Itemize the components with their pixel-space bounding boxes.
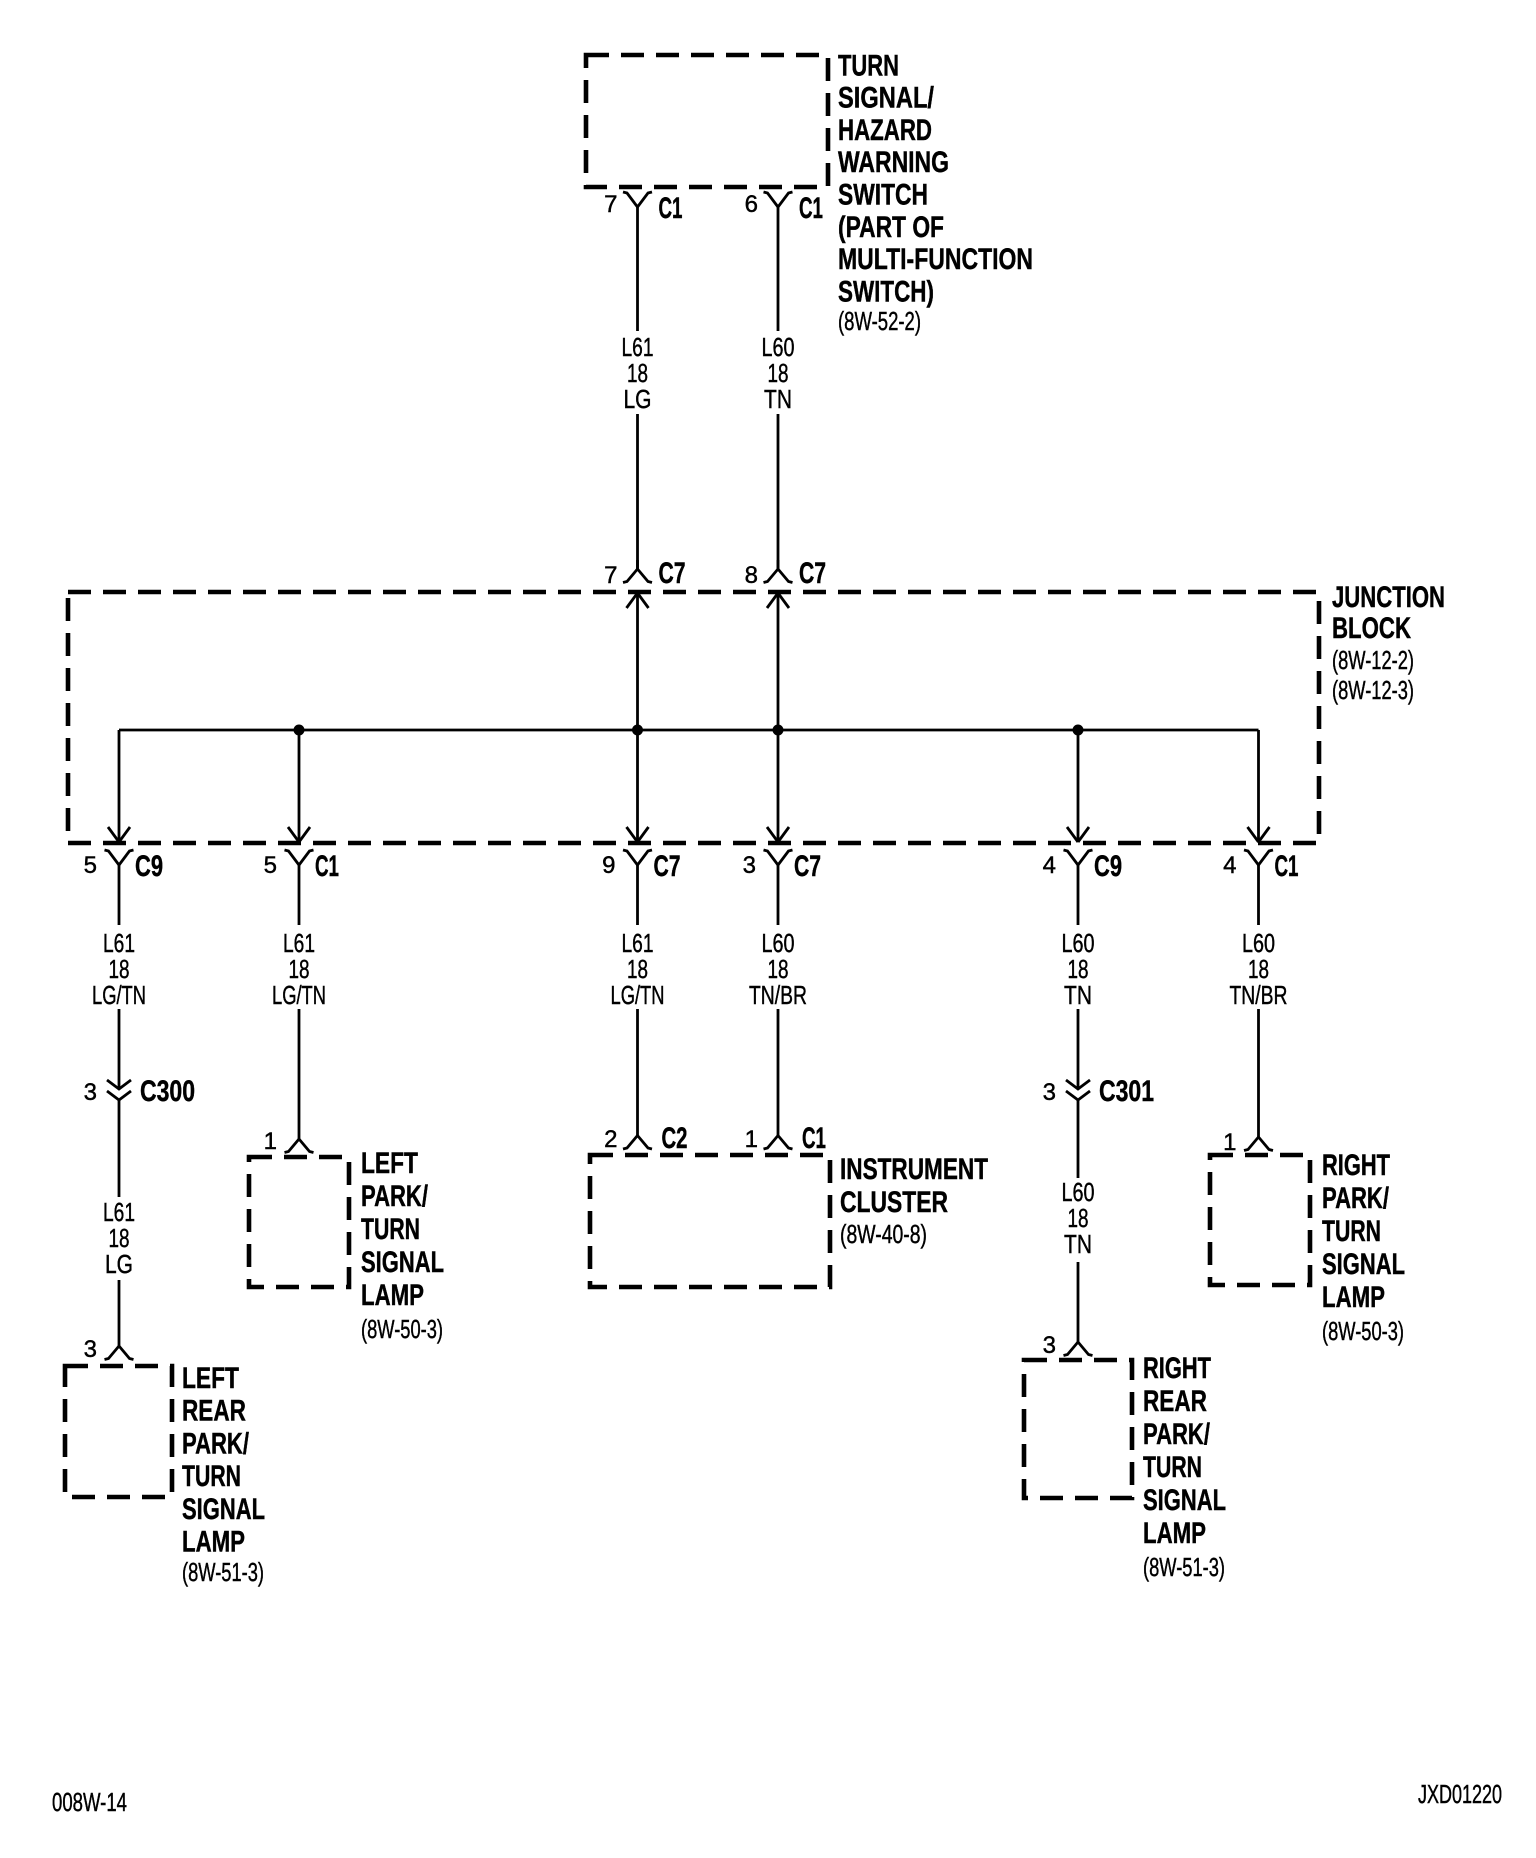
left rear lamp label bbox=[182, 1362, 265, 1587]
wire label block at x=119 bbox=[92, 928, 146, 1010]
wire label block at x=637.5 bbox=[611, 928, 665, 1010]
svg-text:LG/TN: LG/TN bbox=[611, 980, 665, 1010]
svg-text:TN/BR: TN/BR bbox=[1230, 980, 1288, 1010]
svg-text:C7: C7 bbox=[659, 557, 686, 590]
svg-text:5: 5 bbox=[84, 852, 97, 879]
junction dot (C7 pin 3 branch) bbox=[773, 725, 784, 736]
svg-text:(8W-12-2): (8W-12-2) bbox=[1332, 645, 1414, 675]
svg-text:4: 4 bbox=[1043, 852, 1056, 879]
wire L61 below C300 bbox=[118, 1100, 121, 1197]
wire L61 lower segment bbox=[636, 414, 639, 569]
wire label block at x=1078 bbox=[1062, 928, 1095, 1010]
svg-text:6: 6 bbox=[745, 191, 758, 218]
svg-text:LAMP: LAMP bbox=[182, 1526, 245, 1559]
svg-text:JXD01220: JXD01220 bbox=[1418, 1779, 1502, 1809]
svg-text:1: 1 bbox=[745, 1126, 758, 1153]
svg-text:(8W-12-3): (8W-12-3) bbox=[1332, 675, 1414, 705]
svg-text:C7: C7 bbox=[794, 850, 821, 883]
wire L61 to C300 bbox=[118, 1009, 121, 1089]
svg-text:MULTI-FUNCTION: MULTI-FUNCTION bbox=[838, 243, 1033, 276]
svg-text:SIGNAL/: SIGNAL/ bbox=[838, 82, 935, 115]
svg-text:(8W-50-3): (8W-50-3) bbox=[1322, 1316, 1404, 1346]
branch wire to C9 pin 4 bbox=[1077, 730, 1080, 842]
svg-text:(8W-40-8): (8W-40-8) bbox=[840, 1219, 927, 1249]
svg-text:C1: C1 bbox=[1275, 850, 1299, 883]
svg-text:7: 7 bbox=[604, 562, 617, 589]
svg-text:C1: C1 bbox=[799, 192, 823, 225]
svg-text:(PART OF: (PART OF bbox=[838, 211, 944, 244]
connector C7 pin 8 fork (junction block) bbox=[764, 560, 793, 583]
svg-text:TN/BR: TN/BR bbox=[749, 980, 807, 1010]
connector C1 pin 1 fork (instrument cluster) bbox=[764, 1009, 793, 1149]
svg-text:REAR: REAR bbox=[182, 1395, 246, 1428]
svg-text:TN: TN bbox=[1064, 1229, 1092, 1259]
svg-text:HAZARD: HAZARD bbox=[838, 114, 932, 147]
svg-text:LG/TN: LG/TN bbox=[92, 980, 146, 1010]
svg-text:LEFT: LEFT bbox=[182, 1362, 239, 1395]
svg-text:TURN: TURN bbox=[1322, 1215, 1381, 1248]
switch box label bbox=[838, 49, 1033, 336]
svg-text:C7: C7 bbox=[654, 850, 681, 883]
in-line connector C300 bbox=[107, 1080, 131, 1100]
arrow out of junction block (C1 pin 4) bbox=[1248, 827, 1270, 842]
wire L60 below C301 bbox=[1077, 1100, 1080, 1178]
svg-text:SWITCH: SWITCH bbox=[838, 179, 928, 212]
arrow into junction block (pin 7) bbox=[627, 593, 649, 608]
svg-text:SIGNAL: SIGNAL bbox=[1143, 1484, 1226, 1517]
junction block label bbox=[1332, 581, 1445, 705]
svg-text:C300: C300 bbox=[140, 1075, 195, 1108]
connector pin 1 fork (left park lamp) bbox=[285, 1009, 314, 1153]
connector C2 pin 2 fork (instrument cluster) bbox=[623, 1009, 652, 1149]
svg-text:SWITCH): SWITCH) bbox=[838, 275, 934, 308]
arrow out of junction block (C9 pin 4) bbox=[1067, 827, 1089, 842]
svg-text:C301: C301 bbox=[1099, 1075, 1154, 1108]
svg-text:PARK/: PARK/ bbox=[1143, 1418, 1210, 1451]
svg-text:RIGHT: RIGHT bbox=[1322, 1149, 1390, 1182]
svg-text:(8W-51-3): (8W-51-3) bbox=[1143, 1552, 1225, 1582]
svg-text:2: 2 bbox=[604, 1126, 617, 1153]
svg-text:REAR: REAR bbox=[1143, 1385, 1207, 1418]
svg-text:C7: C7 bbox=[799, 557, 826, 590]
svg-text:3: 3 bbox=[1043, 1332, 1056, 1359]
right park lamp label bbox=[1322, 1149, 1405, 1346]
arrow into junction block (pin 8) bbox=[767, 593, 789, 608]
branch wire to C1 pin 4 bbox=[1257, 730, 1260, 842]
connector pin 3 fork (right rear lamp) bbox=[1064, 1262, 1093, 1356]
svg-text:JUNCTION: JUNCTION bbox=[1332, 581, 1445, 614]
svg-text:(8W-51-3): (8W-51-3) bbox=[182, 1557, 264, 1587]
svg-text:LG: LG bbox=[105, 1249, 133, 1279]
svg-text:INSTRUMENT: INSTRUMENT bbox=[840, 1153, 988, 1186]
svg-text:1: 1 bbox=[264, 1128, 277, 1155]
connector C9 pin 5 fork (junction block bottom) bbox=[105, 850, 134, 925]
wire inside junction block (L61 branch) bbox=[636, 593, 639, 842]
svg-text:(8W-52-2): (8W-52-2) bbox=[838, 306, 921, 336]
turn signal / hazard warning switch box bbox=[586, 55, 828, 187]
wire L60 lower segment bbox=[777, 414, 780, 569]
svg-text:PARK/: PARK/ bbox=[1322, 1182, 1389, 1215]
wire label block at x=1258.5 bbox=[1230, 928, 1288, 1010]
svg-text:LAMP: LAMP bbox=[361, 1279, 424, 1312]
svg-text:LG: LG bbox=[624, 384, 652, 414]
connector C9 pin 4 fork (junction block bottom) bbox=[1064, 850, 1093, 925]
svg-text:5: 5 bbox=[264, 852, 277, 879]
svg-text:3: 3 bbox=[743, 852, 756, 879]
branch wire to C9 pin 5 bbox=[118, 730, 121, 842]
left park lamp label bbox=[361, 1147, 444, 1344]
svg-text:7: 7 bbox=[604, 191, 617, 218]
svg-text:TURN: TURN bbox=[361, 1213, 420, 1246]
branch wire to C1 pin 5 bbox=[298, 730, 301, 842]
connector C7 pin 9 fork (junction block bottom) bbox=[623, 850, 652, 925]
arrow out of junction block (C9 pin 5) bbox=[108, 827, 130, 842]
left park/turn signal lamp box bbox=[249, 1157, 349, 1287]
svg-text:SIGNAL: SIGNAL bbox=[182, 1493, 265, 1526]
junction dot (C1 pin 5 branch) bbox=[294, 725, 305, 736]
svg-text:SIGNAL: SIGNAL bbox=[361, 1246, 444, 1279]
svg-text:C1: C1 bbox=[659, 192, 683, 225]
right park/turn signal lamp box bbox=[1210, 1155, 1310, 1285]
arrow out of junction block (C7 pin 9) bbox=[627, 827, 649, 842]
arrow out of junction block (C1 pin 5) bbox=[288, 827, 310, 842]
connector C1 pin 6 (switch) bbox=[764, 192, 793, 207]
bus wire (junction block internal) bbox=[119, 729, 1259, 732]
wire L60 to C301 bbox=[1077, 1009, 1080, 1089]
wire L61 upper segment bbox=[636, 207, 639, 331]
svg-text:TURN: TURN bbox=[838, 49, 899, 82]
arrow out of junction block (C7 pin 3) bbox=[767, 827, 789, 842]
svg-text:TURN: TURN bbox=[182, 1460, 241, 1493]
instrument cluster box bbox=[590, 1155, 830, 1287]
svg-text:PARK/: PARK/ bbox=[182, 1427, 249, 1460]
svg-text:C2: C2 bbox=[662, 1122, 688, 1155]
svg-text:3: 3 bbox=[84, 1336, 97, 1363]
svg-text:(8W-50-3): (8W-50-3) bbox=[361, 1314, 443, 1344]
wire inside junction block (L60 branch) bbox=[777, 593, 780, 842]
junction dot (C9 pin 4 branch) bbox=[1073, 725, 1084, 736]
wire label block L61 18 LG bbox=[103, 1197, 135, 1279]
svg-text:PARK/: PARK/ bbox=[361, 1180, 428, 1213]
wire L60 upper segment bbox=[777, 207, 780, 331]
svg-text:TN: TN bbox=[1064, 980, 1092, 1010]
svg-text:3: 3 bbox=[84, 1079, 97, 1106]
left rear park/turn signal lamp box bbox=[65, 1366, 172, 1497]
wire label block at x=778 bbox=[749, 928, 807, 1010]
svg-text:9: 9 bbox=[602, 852, 615, 879]
svg-text:C9: C9 bbox=[1094, 850, 1122, 883]
wire label block at x=299 bbox=[272, 928, 326, 1010]
svg-text:RIGHT: RIGHT bbox=[1143, 1352, 1211, 1385]
svg-text:008W-14: 008W-14 bbox=[52, 1787, 127, 1817]
right rear park/turn signal lamp box bbox=[1024, 1360, 1132, 1498]
svg-text:SIGNAL: SIGNAL bbox=[1322, 1248, 1405, 1281]
connector C1 pin 7 (switch) bbox=[623, 192, 652, 207]
connector pin 3 fork (left rear lamp) bbox=[105, 1280, 134, 1360]
connector C1 pin 4 fork (junction block bottom) bbox=[1244, 850, 1273, 925]
svg-text:LAMP: LAMP bbox=[1322, 1281, 1385, 1314]
junction dot (C7 pin 9 branch) bbox=[632, 725, 643, 736]
svg-text:TURN: TURN bbox=[1143, 1451, 1202, 1484]
connector pin 1 fork (right park lamp) bbox=[1244, 1009, 1273, 1151]
connector C7 pin 7 fork (junction block) bbox=[623, 560, 652, 583]
junction block box bbox=[68, 592, 1319, 843]
svg-text:BLOCK: BLOCK bbox=[1332, 612, 1411, 645]
wire label block L60 18 TN bbox=[1062, 1177, 1095, 1259]
svg-text:CLUSTER: CLUSTER bbox=[840, 1186, 948, 1219]
svg-text:LAMP: LAMP bbox=[1143, 1517, 1206, 1550]
svg-text:8: 8 bbox=[745, 562, 758, 589]
svg-text:LEFT: LEFT bbox=[361, 1147, 418, 1180]
svg-text:C1: C1 bbox=[802, 1122, 826, 1155]
in-line connector C301 bbox=[1066, 1080, 1090, 1100]
svg-text:C9: C9 bbox=[135, 850, 163, 883]
connector C7 pin 3 fork (junction block bottom) bbox=[764, 850, 793, 925]
svg-text:TN: TN bbox=[764, 384, 792, 414]
svg-text:1: 1 bbox=[1223, 1129, 1236, 1156]
svg-text:WARNING: WARNING bbox=[838, 146, 949, 179]
svg-text:3: 3 bbox=[1043, 1079, 1056, 1106]
connector C1 pin 5 fork (junction block bottom) bbox=[285, 850, 314, 925]
svg-text:C1: C1 bbox=[315, 850, 339, 883]
instrument cluster label bbox=[840, 1153, 988, 1249]
svg-text:4: 4 bbox=[1223, 852, 1236, 879]
svg-text:LG/TN: LG/TN bbox=[272, 980, 326, 1010]
right rear lamp label bbox=[1143, 1352, 1226, 1582]
